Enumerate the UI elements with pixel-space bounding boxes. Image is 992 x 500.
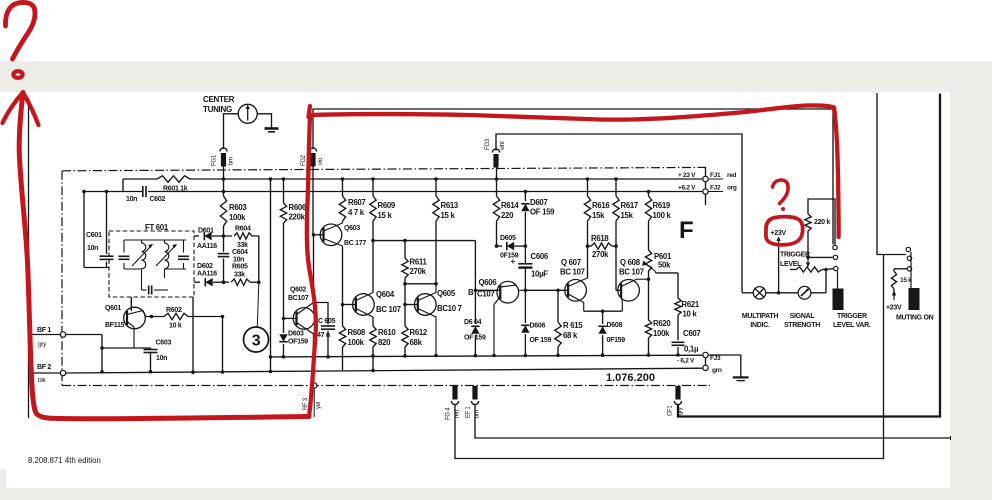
label R609 15k	[378, 201, 396, 220]
svg-text:R608: R608	[348, 328, 366, 337]
svg-text:OF 159: OF 159	[464, 335, 486, 342]
diode D608	[598, 311, 606, 357]
svg-text:220 k: 220 k	[814, 219, 830, 226]
label C603	[156, 340, 172, 347]
red marker question mark top left	[5, 2, 35, 59]
diode D602	[194, 278, 229, 286]
diode D606	[521, 290, 529, 357]
wire wiper to R621	[656, 272, 679, 274]
label FJ2	[710, 185, 737, 192]
label BF 2 blk	[37, 364, 51, 384]
svg-text:BF 1: BF 1	[37, 327, 51, 334]
svg-text:15k: 15k	[592, 211, 605, 220]
label R606 220k	[289, 203, 307, 222]
resistor 15k muting	[891, 269, 907, 300]
label vio	[318, 157, 324, 165]
svg-text:Q605: Q605	[437, 289, 456, 298]
wire rail left link	[122, 179, 124, 192]
label C601	[86, 232, 102, 239]
wire Q603 collector column	[341, 246, 345, 306]
shield boundary dash-dot left	[61, 171, 63, 386]
svg-text:R612: R612	[410, 328, 428, 337]
resistor R609	[370, 177, 376, 292]
svg-text:C603: C603	[156, 340, 172, 347]
wiper arrow trigger	[806, 257, 810, 267]
svg-text:brn: brn	[229, 157, 235, 165]
svg-text:15 k: 15 k	[900, 277, 912, 284]
label FG2	[301, 154, 307, 166]
svg-text:0F159: 0F159	[500, 253, 519, 260]
svg-text:SIGNAL: SIGNAL	[790, 313, 816, 320]
transistor Q604	[353, 294, 375, 316]
label OF 159	[464, 335, 486, 342]
svg-text:D606: D606	[530, 323, 546, 330]
label BC107	[437, 304, 462, 313]
label R604	[235, 226, 251, 233]
label OF159	[500, 253, 519, 260]
wire Q602 collector column	[313, 235, 315, 303]
wire FG3 up and across to multipath	[496, 134, 742, 293]
label B C107	[468, 288, 494, 299]
svg-text:BC 177: BC 177	[344, 240, 366, 247]
label FG3	[485, 138, 491, 150]
capacitor C601	[100, 190, 114, 268]
label F	[679, 217, 693, 244]
label R610 820	[378, 328, 396, 347]
wire Q606 base	[474, 241, 501, 293]
diode D607	[521, 190, 529, 248]
svg-text:+6.2 V: +6.2 V	[678, 185, 696, 192]
diode D604	[471, 290, 479, 357]
svg-text:220: 220	[501, 211, 514, 220]
svg-text:100k: 100k	[229, 213, 246, 222]
svg-text:C602: C602	[150, 196, 166, 203]
svg-text:BC107: BC107	[288, 295, 309, 302]
transistor Q606	[497, 281, 519, 303]
svg-text:LEVEL: LEVEL	[780, 261, 802, 268]
shield boundary dash-dot top	[62, 167, 703, 170]
label C604 10n	[232, 249, 248, 264]
svg-text:CENTER: CENTER	[203, 95, 235, 104]
capacitor C602	[143, 186, 146, 197]
svg-text:D607: D607	[530, 198, 547, 207]
resistor R613	[433, 177, 439, 285]
indicator signal strength	[798, 286, 811, 299]
label R618 270k	[591, 234, 609, 259]
resistor R603	[220, 196, 226, 226]
red marker ellipse around +23V	[766, 217, 803, 245]
label FT 601	[145, 223, 169, 232]
connector TRIGGER LEVEL VAR plug	[833, 289, 844, 311]
svg-text:15k: 15k	[621, 211, 634, 220]
label D605	[500, 235, 516, 242]
wire FG1 column	[222, 167, 226, 197]
svg-text:C601: C601	[86, 232, 102, 239]
label R603 100k	[229, 203, 247, 222]
svg-text:10n: 10n	[87, 245, 98, 252]
svg-text:BF 2: BF 2	[37, 364, 51, 371]
wire link 240	[373, 239, 475, 243]
svg-text:org: org	[727, 185, 737, 192]
wire FJ1 stub	[708, 178, 723, 180]
svg-text:AA116: AA116	[197, 243, 217, 250]
label R613 15k	[441, 201, 459, 220]
wire Q608 collector	[621, 279, 648, 286]
red marker small qmark dot	[781, 207, 785, 211]
svg-text:270k: 270k	[410, 267, 427, 276]
svg-text:C604: C604	[232, 249, 248, 256]
diode D601	[194, 232, 232, 240]
label CF1	[668, 405, 684, 416]
resistor R610	[370, 317, 376, 372]
resistor R615	[555, 290, 561, 357]
wire muting feed tick	[0, 0, 1, 1]
wire common emitters	[584, 309, 623, 313]
svg-text:EF 1: EF 1	[466, 406, 472, 418]
svg-text:R604: R604	[235, 226, 251, 233]
wire Q607 base	[525, 289, 568, 293]
label R601 1k	[163, 186, 188, 193]
wire FJ2 stub	[708, 191, 723, 193]
svg-text:10n: 10n	[156, 355, 167, 362]
wire R611 to Q605 base	[403, 284, 407, 307]
ground	[265, 129, 279, 132]
indicator multipath	[753, 287, 765, 299]
filter FT601 internals	[119, 240, 190, 295]
diode D603	[279, 318, 287, 358]
wire R603 to D601 node	[223, 226, 225, 236]
label D606	[530, 323, 546, 330]
svg-text:BC 107: BC 107	[619, 268, 644, 277]
svg-text:3: 3	[252, 333, 261, 350]
svg-text:TUNING: TUNING	[203, 105, 232, 114]
label C606	[531, 252, 549, 261]
label BC107	[288, 295, 309, 302]
svg-text:R610: R610	[378, 328, 396, 337]
wire Q605 emitter	[418, 309, 438, 358]
label Q601	[105, 305, 121, 312]
svg-text:+: +	[511, 257, 516, 266]
red marker right descent	[834, 108, 839, 238]
svg-text:10µF: 10µF	[531, 270, 548, 279]
svg-text:yel: yel	[316, 402, 322, 409]
label D602	[197, 263, 213, 270]
wire left page border	[28, 98, 30, 418]
wire FJ1-FJ2 link	[705, 182, 707, 189]
capacitor C605	[314, 303, 336, 359]
svg-text:blk: blk	[38, 377, 46, 384]
label 1.076.200	[606, 372, 655, 384]
svg-text:R613: R613	[441, 201, 459, 210]
svg-text:R 615: R 615	[563, 321, 583, 330]
svg-text:Q603: Q603	[344, 225, 360, 232]
resistor 220k trigger	[805, 199, 835, 257]
label 0.1u	[684, 345, 699, 354]
wire Q601 emitter	[102, 322, 151, 349]
wire R616 to Q607 collector	[587, 246, 589, 278]
label R602 10k	[166, 307, 182, 330]
wire R605 right end	[250, 280, 261, 284]
meter M center tuning	[238, 104, 257, 123]
svg-text:100k: 100k	[348, 338, 365, 347]
label BF115	[105, 322, 125, 329]
wire Q603 collector down	[324, 239, 343, 247]
wire 283 link	[405, 283, 436, 285]
label D601	[198, 228, 214, 235]
wire Q604 emitter	[356, 309, 373, 318]
label TRIGGER LEVEL VAR.	[833, 313, 871, 329]
resistor R614	[493, 167, 499, 248]
svg-text:D608: D608	[607, 322, 623, 329]
wire Q602 collector	[297, 303, 314, 315]
wire emitter to RF3	[313, 334, 315, 390]
capacitor C604	[218, 236, 230, 282]
connector CF1	[674, 386, 681, 405]
svg-text:F: F	[679, 217, 693, 244]
resistor R608	[339, 305, 345, 371]
svg-text:BF115: BF115	[105, 322, 125, 329]
wire Q608 emitter	[621, 294, 622, 311]
wire RF3 stub	[313, 388, 315, 417]
wire CF1 route	[678, 94, 940, 417]
label D603	[288, 331, 304, 338]
label 220k	[814, 219, 830, 226]
svg-text:R618: R618	[591, 234, 609, 243]
svg-text:FT 601: FT 601	[145, 223, 169, 232]
svg-text:+23V: +23V	[886, 305, 902, 312]
svg-text:TRIGGER: TRIGGER	[780, 252, 810, 259]
svg-text:B: B	[468, 288, 474, 297]
capacitor C606	[511, 246, 533, 292]
svg-text:47 n: 47 n	[317, 332, 330, 339]
svg-text:D602: D602	[197, 263, 213, 270]
resistor R604	[234, 233, 252, 239]
wire contact to plug	[837, 271, 839, 289]
svg-text:100 k: 100 k	[653, 211, 672, 220]
svg-text:AA116: AA116	[197, 271, 217, 278]
label 10n	[156, 355, 167, 362]
wire EF1 route	[475, 405, 951, 441]
wire Q602 base column lower	[221, 317, 225, 374]
svg-text:BC 107: BC 107	[376, 305, 401, 314]
connector FG4	[451, 386, 458, 405]
resistor R602	[164, 313, 188, 319]
label BC 107	[376, 305, 401, 314]
filter FT601 box	[109, 231, 194, 297]
wire shield corner into FJ1	[703, 167, 706, 176]
label CENTER TUNING	[203, 95, 235, 114]
label Q605	[437, 289, 456, 298]
svg-text:R602: R602	[166, 307, 182, 314]
transistor Q603	[320, 224, 342, 246]
label 33k	[237, 242, 248, 249]
svg-text:1.076.200: 1.076.200	[606, 372, 655, 384]
shield boundary dash-dot bottom	[62, 385, 710, 387]
wire Q604 base	[343, 304, 356, 306]
wire meter right to ground	[257, 114, 271, 128]
svg-text:R605: R605	[232, 264, 248, 271]
label OF159	[288, 339, 308, 346]
label D608	[607, 322, 623, 329]
terminal BF2	[31, 370, 66, 375]
resistor R607	[339, 177, 345, 223]
svg-text:red: red	[727, 172, 737, 179]
resistor R601	[157, 176, 190, 182]
svg-text:15 k: 15 k	[378, 211, 393, 220]
wire FT601 bottom stub	[191, 297, 195, 374]
svg-text:gry: gry	[38, 341, 47, 348]
potentiometer trigger level	[790, 267, 826, 272]
wire muting feed	[877, 93, 906, 255]
wire below FJ2	[705, 194, 707, 205]
wire FJ3 ground	[708, 355, 741, 377]
svg-text:Q606: Q606	[479, 278, 498, 287]
label C 605	[318, 318, 336, 325]
svg-text:8.208.871 4th edition: 8.208.871 4th edition	[28, 456, 101, 465]
wire FJ3 link	[705, 358, 707, 365]
red marker top tick	[309, 106, 311, 117]
wire Q602 base	[284, 317, 297, 319]
svg-text:10n: 10n	[126, 196, 137, 203]
transistor Q607	[565, 280, 587, 302]
label +23V trigger	[771, 230, 787, 237]
resistor R605	[231, 279, 250, 285]
label FJ3	[710, 355, 722, 374]
connector FG3	[492, 149, 499, 168]
transistor Q605	[415, 294, 437, 316]
connector FG1	[220, 148, 227, 167]
capacitor C603	[144, 348, 158, 374]
wire R617 to Q608 base	[616, 246, 621, 290]
red marker vertical trace	[307, 116, 316, 417]
svg-text:D603: D603	[288, 331, 304, 338]
svg-text:R611: R611	[410, 258, 428, 267]
label +23V	[678, 172, 696, 179]
wire R618 leads	[588, 245, 617, 247]
resistor R620	[645, 279, 651, 357]
label 10n	[87, 245, 98, 252]
wire Q601 collector	[127, 311, 164, 319]
ground FJ3	[733, 377, 749, 380]
wire Q602 emitter	[297, 323, 314, 335]
wire BF1 jog	[100, 335, 104, 374]
svg-text:50k: 50k	[658, 261, 671, 270]
svg-text:R606: R606	[289, 203, 307, 212]
label P601 50k	[654, 252, 672, 270]
label wht	[500, 141, 506, 151]
svg-text:TRIGGER: TRIGGER	[837, 313, 867, 320]
label D604	[464, 319, 482, 326]
label Q607	[561, 258, 581, 267]
label FJ1	[710, 172, 737, 179]
svg-text:FG3: FG3	[485, 138, 491, 150]
label MUTING ON	[896, 315, 934, 322]
label Q604	[376, 290, 395, 299]
label BF 1 gry	[37, 327, 51, 348]
node FJ2	[703, 189, 708, 194]
label R607 47k	[348, 198, 365, 217]
label R611 270k	[410, 258, 428, 277]
terminal BF1	[31, 332, 102, 337]
red marker arrow head	[3, 93, 39, 126]
resistor R619	[645, 190, 651, 250]
svg-text:Q601: Q601	[105, 305, 121, 312]
svg-text:Q 607: Q 607	[561, 258, 581, 267]
svg-text:68 k: 68 k	[563, 331, 578, 340]
label BC 107	[619, 268, 644, 277]
svg-text:Q 608: Q 608	[620, 258, 641, 267]
label +6.2V	[678, 185, 696, 192]
label R614 220	[501, 201, 519, 220]
resistor R618	[591, 243, 612, 249]
node RF3	[312, 383, 317, 388]
label R608 100k	[348, 328, 366, 347]
wire Q603 emitter up	[324, 223, 343, 231]
wire indicator line	[742, 292, 826, 294]
label Q608	[620, 258, 641, 267]
svg-text:BC 107: BC 107	[560, 268, 585, 277]
svg-text:FJ3: FJ3	[710, 355, 721, 362]
label RF 3	[303, 397, 309, 410]
wire Q606 emitter	[492, 296, 500, 357]
svg-text:LEVEL VAR.: LEVEL VAR.	[833, 322, 871, 329]
label TRIGGER LEVEL	[780, 252, 810, 269]
wire callout pointer	[257, 282, 259, 327]
svg-text:68k: 68k	[410, 338, 423, 347]
red marker top trace	[310, 105, 834, 119]
svg-text:R619: R619	[653, 201, 671, 210]
svg-text:820: 820	[378, 338, 391, 347]
connector MUTING ON plug	[909, 288, 920, 310]
label AA116	[197, 271, 217, 278]
label R620 100k	[653, 319, 671, 338]
resistor R621	[675, 273, 681, 340]
label 47n	[317, 332, 330, 339]
label brn	[229, 157, 235, 165]
label MULTIPATH INDIC.	[742, 313, 778, 329]
svg-text:C 605: C 605	[318, 318, 336, 325]
label +23V muting	[886, 305, 902, 312]
svg-text:10n: 10n	[233, 257, 244, 264]
wire C601 bottom link	[84, 267, 109, 269]
svg-text:FG2: FG2	[301, 154, 307, 166]
wire Q607 collector	[568, 278, 587, 287]
svg-text:OF 159: OF 159	[530, 337, 552, 344]
switch muting contacts	[906, 247, 912, 271]
label FG1	[212, 154, 218, 166]
svg-text:D6 04: D6 04	[464, 319, 482, 326]
wire 220k to middle contact	[806, 256, 833, 260]
svg-text:D601: D601	[198, 228, 214, 235]
wire left column	[82, 190, 86, 268]
label Q602	[290, 287, 306, 294]
svg-text:CF1: CF1	[668, 405, 674, 416]
svg-text:FJ2: FJ2	[710, 185, 721, 192]
resistor R612	[402, 305, 408, 358]
label R617 15k	[621, 201, 638, 220]
svg-text:+23V: +23V	[771, 230, 787, 237]
svg-text:BC10 7: BC10 7	[437, 304, 462, 313]
label edition	[28, 456, 101, 465]
svg-text:Q602: Q602	[290, 287, 306, 294]
label R605 33k	[232, 264, 248, 279]
transistor Q608	[618, 280, 640, 302]
svg-text:R609: R609	[378, 201, 396, 210]
node FJ1	[703, 176, 708, 181]
transistor Q602	[293, 308, 315, 330]
wire +23V rail	[123, 178, 703, 180]
label C602	[150, 196, 166, 203]
